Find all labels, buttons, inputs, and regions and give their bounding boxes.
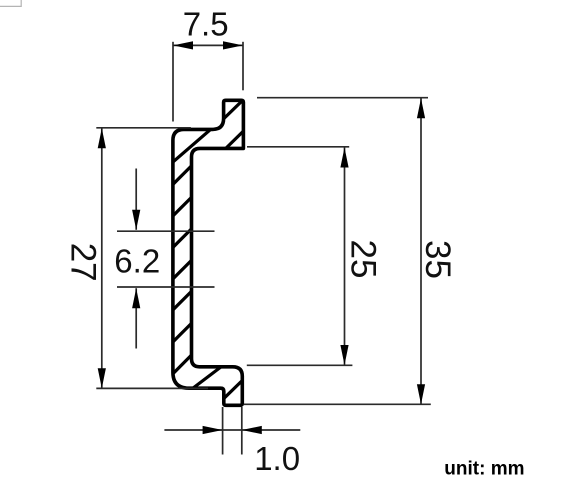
dimension 6.2: extension lines and arrow shafts (117, 169, 215, 349)
dimension 35: extension and dimension lines (244, 98, 431, 405)
dimension 27: bottom arrowhead (98, 368, 106, 388)
dimension 1.0: left arrowhead (pointing right) (203, 426, 223, 434)
dimension 6.2: upper arrowhead (pointing down) (132, 210, 140, 230)
svg-text:unit: mm: unit: mm (444, 459, 524, 480)
dimension 25: extension and dimension lines (247, 147, 353, 365)
corner frame fragment (top-left) (0, 0, 21, 6)
section hatching of rail wall (171, 98, 245, 398)
DIN rail profile outline (cross-section) (173, 100, 244, 405)
svg-text:25: 25 (344, 240, 383, 279)
dimension 27: top arrowhead (98, 128, 106, 148)
dimension 1.0: extension and dimension lines (164, 407, 300, 455)
dimension 7.5: extension and dimension lines (173, 42, 243, 122)
svg-text:35: 35 (418, 240, 457, 279)
svg-text:27: 27 (64, 243, 103, 282)
svg-text:1.0: 1.0 (254, 440, 300, 477)
svg-text:7.5: 7.5 (183, 6, 229, 43)
dimension 25: top arrowhead (340, 148, 348, 168)
dimension 25: bottom arrowhead (340, 345, 348, 365)
dimension 35: bottom arrowhead (417, 384, 425, 404)
dimension 7.5: right arrowhead (223, 41, 243, 49)
dimension 27: extension and dimension lines (96, 128, 208, 389)
svg-text:6.2: 6.2 (114, 242, 160, 279)
dimension 35: top arrowhead (417, 98, 425, 118)
dimension 6.2: lower arrowhead (pointing up) (132, 288, 140, 308)
dimension 1.0: right arrowhead (pointing left) (242, 426, 262, 434)
dimension 7.5: left arrowhead (173, 41, 193, 49)
